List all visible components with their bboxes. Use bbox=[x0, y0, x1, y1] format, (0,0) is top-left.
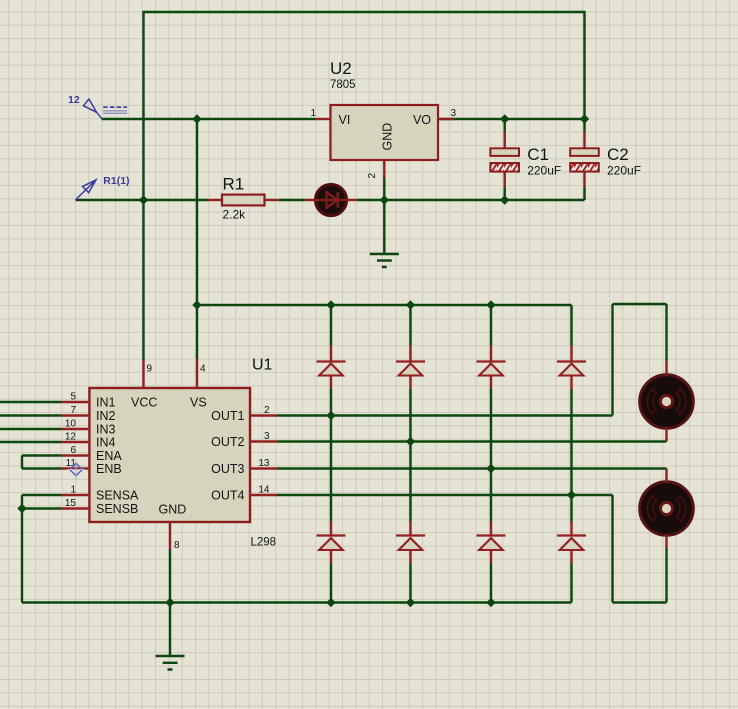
svg-text:12: 12 bbox=[65, 431, 77, 442]
wire diode column x=410.5 lower seg bbox=[409, 564, 411, 603]
pin U1.9 VCC stub bbox=[142, 361, 144, 389]
ground symbol (U2) bbox=[370, 254, 399, 267]
wire OUT4 to motor M2 - bbox=[278, 495, 667, 603]
pin U1.11 ENB stub bbox=[62, 467, 90, 469]
wire C1 bottom lead bbox=[504, 188, 506, 201]
svg-text:R1(1): R1(1) bbox=[103, 175, 129, 187]
svg-text:IN1: IN1 bbox=[96, 396, 116, 410]
svg-text:SENSA: SENSA bbox=[96, 489, 139, 503]
svg-text:13: 13 bbox=[258, 458, 270, 469]
svg-text:VS: VS bbox=[190, 396, 207, 410]
diode D1 (upper, column x=331) bbox=[317, 346, 346, 390]
pin U2.1 VI stub bbox=[316, 118, 331, 120]
node junction diode bus / D2 column bbox=[406, 300, 415, 309]
pin U2.2 GND stub bbox=[383, 160, 385, 178]
wire U1 GND pin to ground symbol bbox=[169, 550, 171, 657]
diode D8 (lower, column x=571.5) bbox=[557, 522, 586, 564]
wire +5V vertical to U1 VCC bbox=[142, 11, 144, 361]
svg-text:VO: VO bbox=[413, 113, 431, 127]
wire diode column x=491 upper seg bbox=[490, 305, 492, 346]
wire SENS riser to ground bus bbox=[21, 495, 23, 603]
wire diode column x=331 upper seg bbox=[330, 305, 332, 346]
node junction VO / C1 top bbox=[500, 114, 509, 123]
svg-text:8: 8 bbox=[174, 540, 180, 551]
pin U1.7 IN2 stub bbox=[62, 414, 90, 416]
wire SENSB bbox=[22, 507, 62, 509]
pin U1.12 IN4 stub bbox=[62, 441, 90, 443]
LED D9 (power indicator) bbox=[315, 185, 347, 216]
resistor R1 2.2k bbox=[222, 175, 265, 222]
svg-text:6: 6 bbox=[70, 445, 76, 456]
node marker at ENB bbox=[67, 462, 85, 479]
wire ground bus bbox=[22, 601, 572, 603]
svg-text:1: 1 bbox=[70, 484, 76, 495]
voltage probe R1(1) bbox=[75, 175, 129, 200]
diode D5 (lower, column x=331) bbox=[317, 522, 346, 564]
svg-text:IN4: IN4 bbox=[96, 436, 116, 450]
pin U1.2 OUT1 stub bbox=[250, 414, 278, 416]
wire OUT1 to motor M1 + bbox=[278, 304, 667, 416]
diode D4 (upper, column x=571.5) bbox=[557, 346, 586, 390]
pin R1.2 stub bbox=[265, 199, 279, 201]
wire diode column x=571.5 middle seg bbox=[570, 389, 572, 522]
svg-text:2.2k: 2.2k bbox=[223, 208, 247, 222]
svg-text:VI: VI bbox=[339, 113, 351, 127]
pin U1.6 ENA stub bbox=[62, 454, 90, 456]
wire diode column x=571.5 upper seg bbox=[570, 305, 572, 346]
svg-text:3: 3 bbox=[451, 108, 457, 119]
node junction OUT4 / D4-D8 column bbox=[567, 490, 576, 499]
svg-text:OUT2: OUT2 bbox=[211, 435, 244, 449]
pin U1.13 OUT3 stub bbox=[250, 467, 278, 469]
node junction OUT1 / D1-D5 column bbox=[326, 411, 335, 420]
svg-text:R1: R1 bbox=[223, 175, 245, 194]
svg-text:L298: L298 bbox=[251, 537, 277, 549]
wire +12V vertical to U1 VS bbox=[196, 119, 198, 359]
pin LED cathode stub bbox=[347, 199, 356, 201]
pin M2 + stub bbox=[665, 469, 667, 483]
node junction diode bus / D1 column bbox=[326, 300, 335, 309]
node junction ground bus / D5 column bbox=[326, 598, 335, 607]
svg-text:3: 3 bbox=[264, 431, 270, 442]
svg-text:OUT4: OUT4 bbox=[211, 489, 244, 503]
wire U2 VO output bbox=[438, 118, 585, 120]
node junction VO / C2 top bbox=[580, 114, 589, 123]
svg-text:15: 15 bbox=[65, 498, 77, 509]
pin U1.3 OUT2 stub bbox=[250, 440, 278, 442]
svg-text:SENSB: SENSB bbox=[96, 502, 138, 516]
svg-text:C1: C1 bbox=[527, 145, 549, 164]
wire ENA-ENB loop bbox=[22, 456, 62, 469]
node junction ground / C1 bottom bbox=[500, 195, 509, 204]
pin U1.10 IN3 stub bbox=[62, 428, 90, 430]
wire diode column x=491 lower seg bbox=[490, 564, 492, 603]
wire diode column x=331 middle seg bbox=[330, 389, 332, 522]
node junction VS / diode bus bbox=[192, 300, 201, 309]
wire OUT3 to motor M2 + bbox=[278, 467, 667, 469]
svg-text:7805: 7805 bbox=[330, 79, 356, 91]
svg-text:OUT3: OUT3 bbox=[211, 462, 244, 476]
wire IN4 input bbox=[0, 441, 62, 443]
capacitor C1 220uF bbox=[490, 131, 561, 188]
pin U2.3 VO stub bbox=[438, 118, 454, 120]
svg-text:ENA: ENA bbox=[96, 449, 122, 463]
pin M2 - stub bbox=[665, 535, 667, 549]
svg-text:VCC: VCC bbox=[131, 396, 157, 410]
svg-text:4: 4 bbox=[200, 364, 206, 375]
wire diode column x=410.5 upper seg bbox=[409, 305, 411, 346]
svg-text:IN2: IN2 bbox=[96, 409, 116, 423]
wire C2 bottom lead bbox=[583, 188, 585, 201]
svg-text:GND: GND bbox=[381, 123, 395, 151]
pin LED anode stub bbox=[305, 199, 315, 201]
svg-text:2: 2 bbox=[367, 173, 378, 179]
pin U1.1 SENSA stub bbox=[62, 494, 90, 496]
wire R1 to LED D1 anode bbox=[279, 199, 305, 201]
wire IN2 input bbox=[0, 414, 62, 416]
pin M1 + stub bbox=[665, 361, 667, 376]
svg-text:GND: GND bbox=[159, 502, 187, 516]
wire diode column x=491 middle seg bbox=[490, 389, 492, 522]
wire U2 GND pin to ground symbol bbox=[383, 178, 385, 254]
pin U1.4 VS stub bbox=[196, 359, 198, 388]
wire IN3 input bbox=[0, 428, 62, 430]
wire SENSA bbox=[22, 494, 62, 496]
wire OUT2 to motor M1 - bbox=[278, 440, 667, 442]
capacitor C2 220uF bbox=[570, 131, 641, 188]
svg-text:220uF: 220uF bbox=[607, 164, 641, 178]
diode D7 (lower, column x=491) bbox=[477, 522, 506, 564]
wire +12V input to U2 VI bbox=[102, 118, 316, 120]
wire LED cathode to ground net bbox=[357, 199, 585, 201]
diode D3 (upper, column x=491) bbox=[477, 346, 506, 390]
svg-text:5: 5 bbox=[70, 391, 76, 402]
wire diode column x=331 lower seg bbox=[330, 564, 332, 603]
node junction +5V / R1 bbox=[139, 195, 148, 204]
svg-text:C2: C2 bbox=[607, 145, 629, 164]
pin M1 - stub bbox=[665, 428, 667, 442]
driver IC U1 L298 bbox=[89, 357, 276, 549]
node junction ground bus / D6 column bbox=[406, 598, 415, 607]
node junction ground bus / U1 GND bbox=[165, 598, 174, 607]
ground symbol (U1) bbox=[156, 656, 185, 670]
svg-text:U1: U1 bbox=[252, 357, 273, 374]
wire diode column x=571.5 lower seg bbox=[570, 564, 572, 603]
svg-text:10: 10 bbox=[65, 418, 77, 429]
node junction OUT2 / D2-D6 column bbox=[406, 437, 415, 446]
wire R1(1) net from probe to R1 bbox=[76, 199, 208, 201]
node junction ground bus / D7 column bbox=[486, 598, 495, 607]
motor M2 bbox=[640, 482, 694, 536]
node junction ground net at U2 GND bbox=[380, 195, 389, 204]
diode D6 (lower, column x=410.5) bbox=[396, 522, 425, 564]
wire +12V diode bus bbox=[197, 304, 572, 306]
wire C1 top lead bbox=[504, 119, 506, 133]
node junction +12V / VS vertical bbox=[192, 114, 201, 123]
wire top rail down to C2 bbox=[583, 11, 585, 132]
svg-text:1: 1 bbox=[310, 108, 316, 119]
svg-text:U2: U2 bbox=[330, 59, 352, 78]
power terminal 12V bbox=[68, 94, 127, 119]
pin U1.5 IN1 stub bbox=[62, 401, 90, 403]
regulator U2 bbox=[330, 59, 438, 160]
svg-text:7: 7 bbox=[70, 405, 76, 416]
node junction diode bus / D3 column bbox=[486, 300, 495, 309]
pin U1.15 SENSB stub bbox=[62, 507, 90, 509]
svg-text:IN3: IN3 bbox=[96, 423, 116, 437]
wire diode column x=410.5 middle seg bbox=[409, 389, 411, 522]
svg-text:14: 14 bbox=[258, 484, 270, 495]
pin U1.8 GND stub bbox=[169, 522, 171, 550]
node junction OUT3 / D3-D7 column bbox=[486, 464, 495, 473]
node junction SENSA-SENSB bbox=[17, 504, 26, 513]
svg-text:2: 2 bbox=[264, 405, 270, 416]
svg-text:OUT1: OUT1 bbox=[211, 409, 244, 423]
pin U1.14 OUT4 stub bbox=[250, 494, 278, 496]
wire IN1 input bbox=[0, 401, 62, 403]
svg-text:12: 12 bbox=[68, 94, 80, 106]
svg-text:9: 9 bbox=[147, 364, 153, 375]
svg-text:ENB: ENB bbox=[96, 462, 122, 476]
diode D2 (upper, column x=410.5) bbox=[396, 346, 425, 390]
svg-text:220uF: 220uF bbox=[527, 164, 561, 178]
motor M1 bbox=[640, 375, 694, 429]
wire +5V top rail bbox=[144, 11, 585, 13]
pin R1.1 stub bbox=[208, 199, 222, 201]
